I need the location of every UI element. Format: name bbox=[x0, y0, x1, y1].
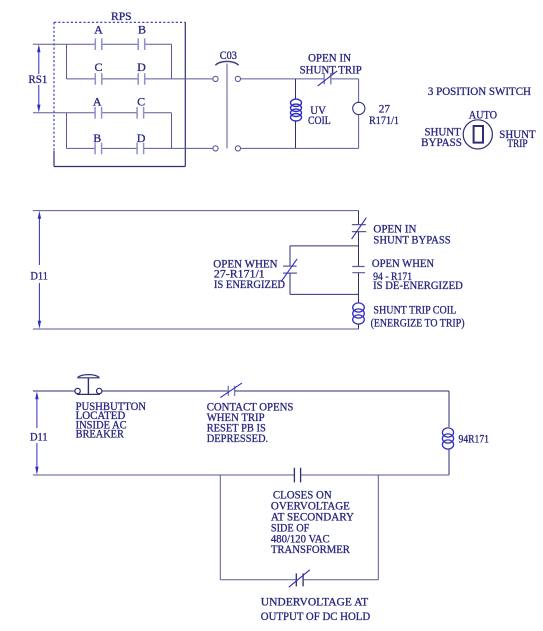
svg-text:BREAKER: BREAKER bbox=[76, 429, 125, 441]
svg-text:OUTPUT OF DC HOLD: OUTPUT OF DC HOLD bbox=[261, 611, 370, 623]
pushbutton bbox=[75, 375, 102, 395]
connector C03 arc symbol bbox=[215, 61, 238, 65]
svg-text:D11: D11 bbox=[30, 431, 48, 443]
wire: lower group left branch vertical bbox=[66, 113, 68, 149]
svg-text:RPS: RPS bbox=[111, 11, 132, 23]
contact D (upper) bbox=[138, 73, 145, 85]
label OPEN IN / SHUNT TRIP bbox=[300, 53, 362, 77]
svg-text:A: A bbox=[93, 94, 102, 108]
svg-text:D: D bbox=[137, 60, 146, 74]
label SHUNT TRIP COIL / (ENERGIZE TO TRIP) bbox=[371, 305, 465, 330]
connector C03 label bbox=[220, 50, 237, 62]
wire: right vertical below coil 94-R171 bbox=[448, 449, 450, 475]
relay coil 94-R171 bbox=[442, 428, 453, 449]
svg-text:RS1: RS1 bbox=[28, 74, 47, 86]
wire: lower box left vertical bbox=[219, 475, 221, 580]
contact D (lower) bbox=[137, 143, 144, 155]
wire: middle loop bottom bbox=[33, 328, 359, 330]
wire: branch box top bbox=[290, 245, 359, 247]
svg-text:27: 27 bbox=[379, 103, 390, 115]
wire: top rung from C03 to contact bbox=[241, 78, 324, 80]
contact CONTACT OPENS WHEN TRIP RESET PB DEPRESSED (NC) bbox=[220, 383, 242, 398]
wire: lower group right vertical bbox=[171, 113, 173, 149]
dimension D11 (bottom) bbox=[30, 391, 48, 475]
selector switch circle bbox=[463, 120, 492, 149]
dimension RS1 bbox=[28, 44, 47, 112]
contact A (lower) bbox=[95, 107, 102, 119]
svg-text:DEPRESSED.: DEPRESSED. bbox=[207, 433, 269, 445]
wire: lower box right vertical bbox=[377, 475, 379, 580]
label 27 / R171/1 bbox=[369, 103, 399, 127]
wire: bottom loop top left bbox=[33, 390, 75, 392]
selector switch knob bbox=[474, 126, 483, 143]
svg-text:B: B bbox=[93, 131, 101, 145]
wire: lower branch 1 (A-C) bbox=[67, 112, 172, 114]
wire: lower feed bbox=[33, 112, 67, 114]
svg-text:(ENERGIZE TO TRIP): (ENERGIZE TO TRIP) bbox=[371, 317, 465, 329]
svg-text:C: C bbox=[137, 94, 145, 108]
wire: UV coil branch vertical bottom bbox=[295, 121, 297, 149]
wire: upper group left branch vertical bbox=[66, 44, 68, 79]
wire: left branch vertical lower bbox=[289, 273, 291, 294]
label SHUNT BYPASS bbox=[421, 127, 462, 149]
wire: upper branch 1 (A-B) bbox=[67, 43, 172, 45]
svg-text:IS DE-ENERGIZED: IS DE-ENERGIZED bbox=[373, 280, 463, 292]
svg-text:D: D bbox=[137, 131, 146, 145]
contact OPEN WHEN 27-R171/1 IS ENERGIZED (NC, vertical) bbox=[281, 259, 297, 282]
wire: bottom loop bottom (left of CLOSES contact) bbox=[33, 474, 294, 476]
svg-text:OPEN WHEN: OPEN WHEN bbox=[372, 258, 435, 270]
connector C03 terminal circles top bbox=[213, 76, 241, 81]
contact A (upper) bbox=[95, 38, 102, 50]
wire: lower box bottom left bbox=[220, 579, 296, 581]
label CONTACT OPENS / WHEN TRIP / RESET PB IS / DEPRESSED. bbox=[207, 401, 294, 445]
wire: top rung bottom return bbox=[241, 147, 359, 149]
wire: right branch vertical lower bbox=[358, 273, 360, 303]
inductor UV coil bbox=[291, 99, 302, 121]
label CLOSES ON ... TRANSFORMER bbox=[271, 489, 355, 556]
wire: UV coil branch vertical top bbox=[295, 79, 297, 100]
wire: lower branch 2 (B-D) exits to C03 bbox=[67, 147, 213, 149]
svg-text:OPEN IN: OPEN IN bbox=[308, 53, 352, 65]
connector C03 vertical line bbox=[226, 64, 228, 149]
svg-text:A: A bbox=[94, 22, 103, 36]
relay box RPS dashed outline bbox=[54, 22, 185, 166]
contact B (upper) bbox=[138, 38, 145, 50]
dimension D11 (middle) bbox=[30, 211, 48, 329]
wire: right vertical below relay 27 bbox=[358, 115, 360, 149]
label SHUNT TRIP (right) bbox=[499, 129, 535, 150]
wire: upper feed bbox=[33, 43, 67, 45]
wire: top rung contact to right corner bbox=[331, 78, 359, 80]
wire: after pushbutton to contact bbox=[102, 390, 228, 392]
wire: upper branch 2 (C-D) exits to C03 bbox=[67, 78, 213, 80]
label OPEN WHEN / 94-R171 / IS DE-ENERGIZED bbox=[372, 258, 463, 292]
wire: right vertical above coil 94-R171 bbox=[448, 391, 450, 427]
label OPEN WHEN / 27-R171/1 / IS ENERGIZED bbox=[213, 258, 285, 291]
wire: branch box bottom bbox=[290, 293, 359, 295]
contact UNDERVOLTAGE (NC) bbox=[289, 570, 310, 587]
svg-text:C03: C03 bbox=[220, 50, 237, 62]
svg-text:COIL: COIL bbox=[308, 115, 331, 127]
contact C (upper) bbox=[95, 73, 102, 85]
wire: contact to right corner bbox=[235, 390, 449, 392]
svg-text:SHUNT BYPASS: SHUNT BYPASS bbox=[373, 234, 450, 246]
relay coil 27 R171/1 circle bbox=[353, 102, 365, 114]
wire: middle right vertical upper bbox=[358, 211, 360, 225]
contact CLOSES ON OVERVOLTAGE (NO) bbox=[294, 468, 300, 483]
svg-text:R171/1: R171/1 bbox=[369, 115, 399, 127]
svg-text:BYPASS: BYPASS bbox=[421, 137, 462, 149]
wire: upper group right vertical bbox=[171, 44, 173, 79]
svg-text:TRIP: TRIP bbox=[507, 138, 527, 150]
svg-text:3 POSITION SWITCH: 3 POSITION SWITCH bbox=[428, 86, 531, 98]
wire: below shunt trip coil bbox=[358, 324, 360, 329]
svg-text:D11: D11 bbox=[30, 270, 48, 282]
svg-text:TRANSFORMER: TRANSFORMER bbox=[271, 544, 350, 556]
label OPEN IN / SHUNT BYPASS bbox=[373, 223, 450, 246]
svg-text:UNDERVOLTAGE AT: UNDERVOLTAGE AT bbox=[261, 597, 368, 609]
contact B (lower) bbox=[95, 143, 102, 155]
contact C (lower) bbox=[137, 107, 144, 119]
wire: bottom loop bottom (right of CLOSES contact) bbox=[301, 474, 449, 476]
svg-text:SHUNT TRIP: SHUNT TRIP bbox=[300, 65, 362, 77]
connector C03 terminal circles bottom bbox=[213, 146, 241, 151]
inductor shunt trip coil bbox=[353, 303, 365, 324]
svg-text:SHUNT TRIP COIL: SHUNT TRIP COIL bbox=[373, 305, 456, 317]
wire: middle loop top bbox=[33, 210, 359, 212]
contact OPEN WHEN 94-R171 IS DE-ENERGIZED (NO, vertical) bbox=[352, 267, 365, 273]
svg-text:IS ENERGIZED: IS ENERGIZED bbox=[214, 279, 285, 291]
label UNDERVOLTAGE AT / OUTPUT OF DC HOLD bbox=[261, 597, 370, 623]
wire: right vertical above relay 27 bbox=[358, 79, 360, 102]
wire: lower box bottom right bbox=[303, 579, 378, 581]
label PUSHBUTTON LOCATED INSIDE AC BREAKER bbox=[76, 401, 147, 441]
svg-text:94R171: 94R171 bbox=[459, 434, 490, 446]
svg-text:AUTO: AUTO bbox=[469, 110, 497, 122]
label UV COIL bbox=[308, 105, 331, 127]
contact OPEN IN SHUNT TRIP (NC) bbox=[318, 71, 338, 86]
relay box RPS label bbox=[111, 11, 132, 23]
wire: left branch vertical upper bbox=[289, 246, 291, 266]
wire: right branch vertical upper bbox=[358, 246, 360, 266]
svg-text:B: B bbox=[138, 22, 146, 36]
svg-text:C: C bbox=[94, 60, 102, 74]
wire: between contact and branch junction bbox=[358, 232, 360, 246]
contact OPEN IN SHUNT BYPASS (NC, vertical) bbox=[352, 218, 367, 239]
